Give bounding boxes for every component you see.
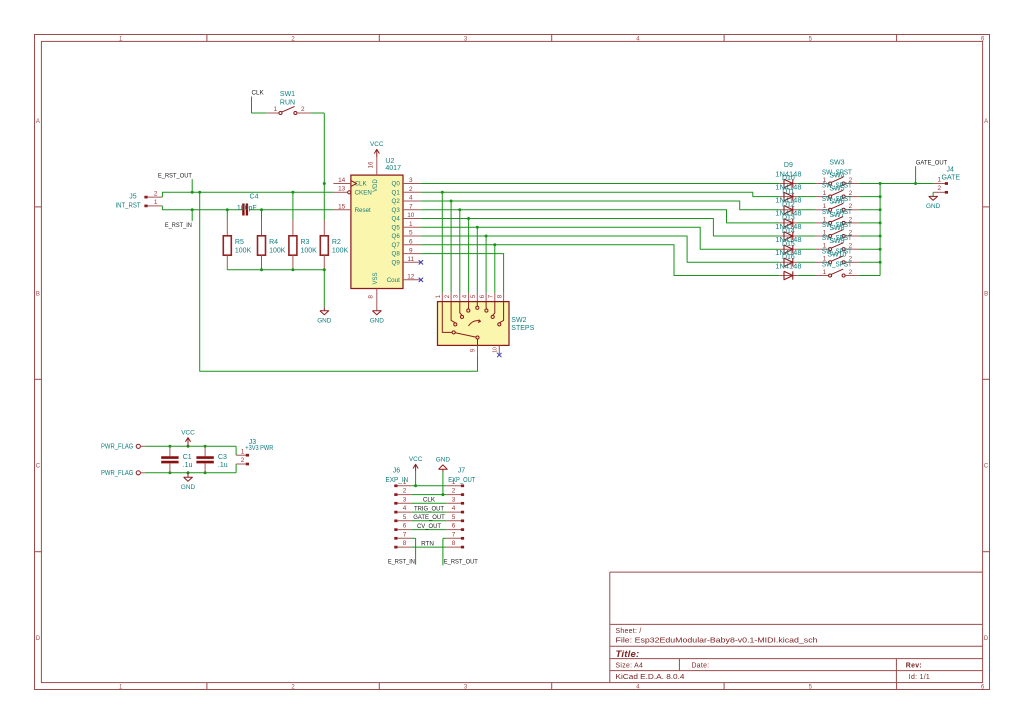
svg-text:TRIG_OUT: TRIG_OUT — [414, 505, 444, 512]
svg-text:Sheet: /: Sheet: / — [616, 628, 642, 635]
svg-text:SW6: SW6 — [829, 199, 844, 206]
svg-text:5: 5 — [409, 230, 413, 237]
svg-text:.1u: .1u — [218, 462, 228, 469]
svg-text:D: D — [36, 636, 41, 642]
svg-text:U2: U2 — [385, 158, 394, 165]
svg-text:J4: J4 — [947, 167, 955, 174]
svg-text:1: 1 — [274, 106, 278, 113]
svg-text:A: A — [36, 119, 40, 125]
svg-text:VCC: VCC — [409, 456, 423, 463]
svg-text:2: 2 — [409, 186, 413, 193]
svg-text:D10: D10 — [782, 175, 795, 182]
svg-text:SW10: SW10 — [827, 251, 846, 258]
svg-text:6: 6 — [409, 239, 413, 246]
svg-text:100K: 100K — [301, 248, 318, 255]
svg-text:12: 12 — [407, 274, 415, 281]
svg-text:8: 8 — [403, 540, 407, 547]
svg-text:Reset: Reset — [355, 207, 371, 214]
svg-text:100K: 100K — [269, 248, 286, 255]
svg-text:6: 6 — [480, 294, 486, 298]
svg-text:EXP_OUT: EXP_OUT — [448, 477, 476, 484]
svg-text:Q8: Q8 — [392, 251, 401, 258]
svg-text:B: B — [984, 291, 988, 297]
svg-text:J6: J6 — [393, 468, 401, 475]
svg-text:SW2: SW2 — [511, 317, 526, 324]
svg-text:2: 2 — [241, 457, 245, 464]
svg-text:D12: D12 — [782, 202, 795, 209]
svg-text:4017: 4017 — [385, 165, 401, 172]
svg-text:4: 4 — [409, 195, 413, 202]
svg-text:J5: J5 — [129, 193, 137, 200]
svg-text:3: 3 — [454, 294, 460, 298]
svg-text:9: 9 — [409, 247, 413, 254]
svg-text:Q0: Q0 — [392, 181, 401, 188]
svg-text:3: 3 — [409, 177, 413, 184]
svg-text:SW_SPST: SW_SPST — [822, 262, 853, 269]
svg-text:D15: D15 — [782, 241, 795, 248]
svg-text:CKEN: CKEN — [355, 190, 372, 197]
svg-text:7: 7 — [409, 204, 413, 211]
svg-text:E_RST_IN: E_RST_IN — [165, 222, 192, 229]
svg-text:7: 7 — [403, 531, 407, 538]
svg-text:VCC: VCC — [370, 141, 384, 148]
svg-text:1: 1 — [154, 199, 158, 206]
svg-text:Q6: Q6 — [392, 233, 401, 240]
svg-text:4: 4 — [403, 505, 407, 512]
svg-text:8: 8 — [452, 540, 456, 547]
svg-text:14: 14 — [338, 177, 346, 184]
svg-text:SW1: SW1 — [280, 91, 295, 98]
svg-text:100K: 100K — [332, 248, 349, 255]
svg-text:SW8: SW8 — [829, 225, 844, 232]
svg-text:GND: GND — [317, 318, 332, 325]
svg-text:3: 3 — [403, 496, 407, 503]
svg-text:Q5: Q5 — [392, 224, 401, 231]
svg-text:1N4148: 1N4148 — [775, 263, 801, 270]
svg-text:1: 1 — [938, 176, 942, 183]
svg-text:10: 10 — [492, 347, 498, 353]
svg-text:100pF: 100pF — [237, 205, 257, 212]
svg-text:6: 6 — [452, 523, 456, 530]
svg-text:D9: D9 — [784, 162, 793, 169]
svg-text:15: 15 — [338, 203, 346, 210]
svg-text:Date:: Date: — [692, 663, 710, 670]
svg-text:CV_OUT: CV_OUT — [417, 523, 441, 530]
svg-text:D: D — [984, 636, 989, 642]
svg-text:D13: D13 — [782, 215, 795, 222]
svg-text:5: 5 — [471, 294, 477, 298]
svg-text:D11: D11 — [782, 188, 794, 195]
svg-text:10: 10 — [407, 212, 415, 219]
svg-text:1: 1 — [436, 294, 442, 298]
svg-text:E_RST_OUT: E_RST_OUT — [158, 173, 192, 180]
svg-text:Title:: Title: — [616, 649, 640, 660]
svg-text:RTN: RTN — [421, 540, 434, 547]
svg-text:1: 1 — [241, 448, 245, 455]
svg-text:2: 2 — [452, 488, 456, 495]
svg-text:RUN: RUN — [280, 100, 295, 107]
svg-text:Q2: Q2 — [392, 198, 401, 205]
svg-text:GATE: GATE — [942, 174, 961, 181]
svg-text:VCC: VCC — [181, 429, 195, 436]
svg-text:E_RST_IN: E_RST_IN — [388, 558, 415, 565]
svg-text:CLK: CLK — [252, 90, 265, 97]
svg-text:2: 2 — [154, 190, 158, 197]
svg-text:100K: 100K — [235, 248, 252, 255]
svg-text:R5: R5 — [235, 239, 244, 246]
svg-text:SW5: SW5 — [829, 186, 844, 193]
svg-text:STEPS: STEPS — [511, 325, 534, 332]
svg-text:SW7: SW7 — [829, 212, 844, 219]
svg-text:Q1: Q1 — [392, 189, 401, 196]
svg-text:GND: GND — [436, 456, 451, 463]
svg-text:2: 2 — [849, 269, 853, 276]
svg-text:SW4: SW4 — [829, 172, 844, 179]
svg-text:11: 11 — [407, 256, 414, 263]
svg-text:16: 16 — [367, 161, 374, 168]
svg-text:1: 1 — [409, 221, 413, 228]
svg-text:SW9: SW9 — [829, 238, 844, 245]
svg-text:D14: D14 — [782, 228, 795, 235]
svg-text:GND: GND — [370, 318, 385, 325]
svg-text:PWR_FLAG: PWR_FLAG — [101, 470, 133, 477]
svg-text:2: 2 — [938, 185, 942, 192]
svg-text:Id: 1/1: Id: 1/1 — [909, 674, 930, 681]
svg-text:C1: C1 — [183, 454, 192, 461]
svg-text:Q7: Q7 — [392, 242, 401, 249]
svg-text:GND: GND — [926, 203, 941, 210]
svg-text:9: 9 — [471, 348, 477, 352]
svg-text:J7: J7 — [458, 468, 466, 475]
svg-text:GND: GND — [181, 484, 196, 491]
svg-text:5: 5 — [403, 514, 407, 521]
svg-text:File: Esp32EduModular-Baby8-v0: File: Esp32EduModular-Baby8-v0.1-MIDI.ki… — [616, 638, 818, 645]
svg-text:Rev:: Rev: — [906, 663, 922, 670]
svg-text:2: 2 — [301, 106, 305, 113]
svg-text:2: 2 — [403, 488, 407, 495]
svg-text:VDD: VDD — [373, 179, 379, 192]
svg-text:GATE_OUT: GATE_OUT — [413, 514, 445, 521]
svg-text:KiCad E.D.A. 8.0.4: KiCad E.D.A. 8.0.4 — [616, 674, 685, 681]
svg-text:VSS: VSS — [373, 272, 379, 284]
svg-text:C3: C3 — [218, 454, 227, 461]
svg-text:EXP_IN: EXP_IN — [386, 477, 409, 484]
svg-text:CLK: CLK — [423, 497, 436, 504]
svg-text:Q3: Q3 — [392, 207, 401, 214]
svg-text:R4: R4 — [269, 239, 278, 246]
svg-text:INT_RST: INT_RST — [115, 202, 141, 209]
svg-text:E_RST_OUT: E_RST_OUT — [444, 558, 478, 565]
svg-text:4: 4 — [462, 294, 468, 298]
svg-text:R3: R3 — [301, 239, 310, 246]
svg-text:6: 6 — [403, 523, 407, 530]
svg-text:C: C — [984, 464, 989, 470]
svg-text:Size: A4: Size: A4 — [616, 663, 644, 670]
svg-text:CLK: CLK — [355, 181, 368, 188]
svg-text:Q9: Q9 — [392, 259, 401, 266]
svg-text:Cout: Cout — [387, 277, 400, 284]
svg-text:PWR_FLAG: PWR_FLAG — [101, 443, 133, 450]
svg-text:.1u: .1u — [183, 462, 193, 469]
svg-text:Q4: Q4 — [392, 216, 401, 223]
svg-text:6: 6 — [981, 36, 985, 42]
svg-text:8: 8 — [367, 295, 374, 299]
svg-text:13: 13 — [338, 186, 346, 193]
svg-text:1: 1 — [823, 269, 827, 276]
svg-text:7: 7 — [489, 294, 495, 298]
svg-text:C4: C4 — [250, 194, 259, 201]
svg-text:5: 5 — [452, 514, 456, 521]
svg-text:7: 7 — [452, 531, 456, 538]
svg-text:8: 8 — [497, 294, 503, 298]
svg-text:R2: R2 — [332, 239, 341, 246]
svg-text:2: 2 — [445, 294, 451, 298]
svg-text:B: B — [36, 291, 40, 297]
svg-text:+3V3 PWR: +3V3 PWR — [245, 445, 273, 452]
svg-text:3: 3 — [452, 496, 456, 503]
svg-text:D16: D16 — [782, 254, 795, 261]
svg-text:GATE_OUT: GATE_OUT — [916, 160, 948, 167]
svg-text:4: 4 — [452, 505, 456, 512]
svg-text:SW3: SW3 — [829, 159, 844, 166]
svg-text:C: C — [36, 464, 41, 470]
svg-text:A: A — [984, 119, 988, 125]
